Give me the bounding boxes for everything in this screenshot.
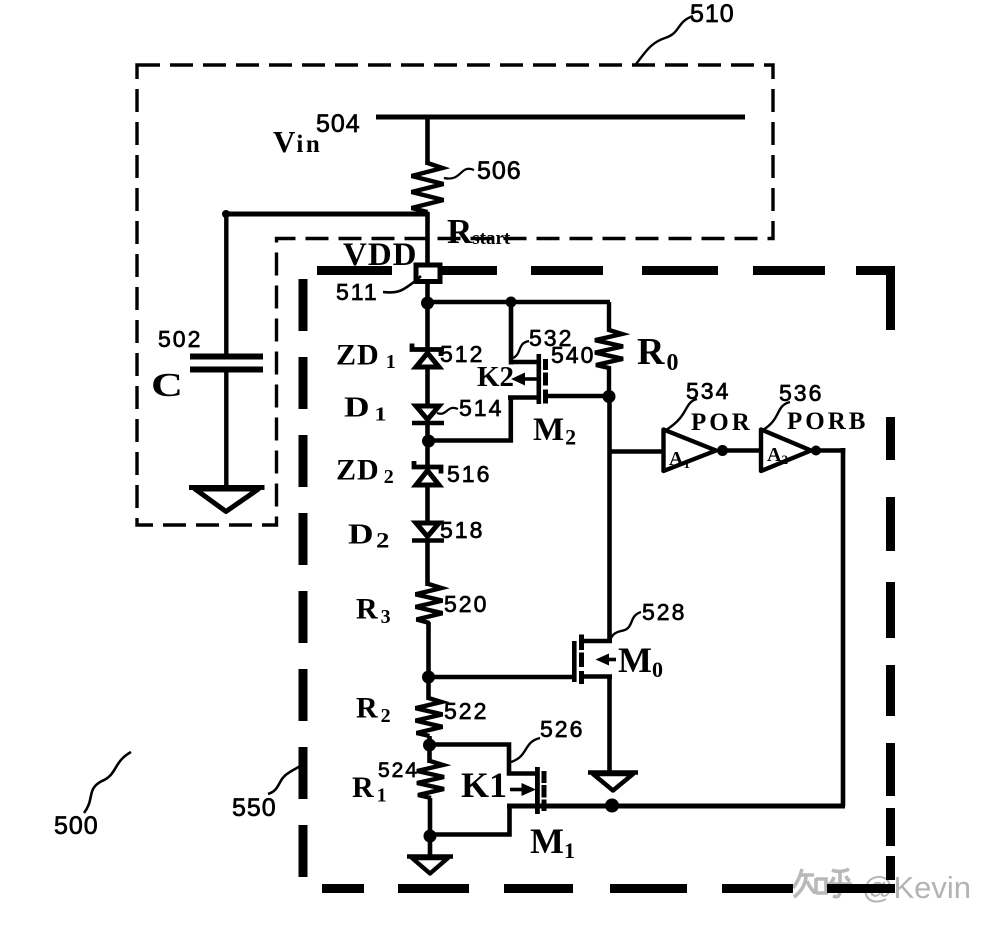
M2 drain lead bbox=[546, 394, 606, 399]
dashed box 510 (startup block, L-shaped) bbox=[137, 65, 773, 525]
svg-text:514: 514 bbox=[459, 395, 503, 421]
cathode bar with bent ends bbox=[412, 344, 442, 357]
leader to box 550 bbox=[268, 764, 303, 794]
ground (M0) bbox=[588, 773, 638, 791]
junction dot R0 bottom / M2 drain bbox=[603, 390, 616, 403]
leader to M1 gate bbox=[511, 738, 540, 762]
svg-text:POR: POR bbox=[691, 409, 753, 436]
dashed box 550 bottom edge bbox=[322, 884, 793, 893]
M2 gate bar bbox=[537, 354, 542, 404]
leader to M0 bbox=[610, 612, 641, 640]
capacitor C bottom plate bbox=[190, 367, 263, 373]
svg-text:524: 524 bbox=[378, 759, 419, 782]
svg-text:K2: K2 bbox=[477, 361, 514, 393]
transistor M2 (K2) 532 bbox=[508, 302, 606, 404]
M0 channel segments bbox=[579, 635, 584, 651]
junction dot R1 bottom bbox=[424, 830, 437, 843]
wire resistor 506 bottom to capacitor branch bbox=[223, 212, 429, 217]
wire R2 to R1 with K1 tap bbox=[427, 736, 432, 763]
wire VDD rail to R0 bbox=[426, 300, 610, 305]
wire VDD pin down to rail bbox=[425, 282, 430, 349]
M1 gate bar bbox=[535, 767, 540, 814]
watermark glyph 乎 bbox=[828, 869, 852, 897]
svg-text:506: 506 bbox=[477, 157, 522, 185]
wire node to M2 gate bbox=[429, 398, 511, 441]
junction dot A2 output bbox=[811, 446, 821, 456]
capacitor C top plate bbox=[190, 354, 263, 360]
leader squiggle 500 bbox=[84, 752, 131, 813]
buffer U536 A2 (PORB) bbox=[761, 430, 811, 472]
wire feedback vertical bbox=[841, 448, 846, 806]
junction dot M2 source tap bbox=[506, 297, 517, 308]
wire D2 to R3 bbox=[425, 541, 430, 586]
watermark glyph 知 bbox=[793, 869, 826, 897]
svg-text:504: 504 bbox=[316, 110, 361, 138]
transistor M0 528 bbox=[572, 635, 616, 685]
zener ZD2 516 bbox=[414, 461, 442, 485]
svg-text:510: 510 bbox=[690, 0, 735, 28]
wire Vin to Rstart bbox=[425, 115, 430, 165]
wire node to M1 gate bbox=[430, 745, 536, 774]
M0 drain lead bbox=[582, 639, 612, 644]
M1 channel segments bbox=[542, 771, 547, 783]
leader to resistor 506 bbox=[444, 169, 474, 179]
wire down to VDD pin bbox=[425, 212, 430, 267]
dashed box 550 right edge bbox=[827, 417, 895, 893]
K2 arrow at gate bbox=[511, 373, 525, 386]
svg-text:VDD: VDD bbox=[343, 237, 418, 273]
node square 511 (VDD pin) bbox=[416, 265, 440, 282]
wire to buffer A1 input bbox=[609, 449, 664, 454]
svg-text:526: 526 bbox=[540, 716, 584, 742]
svg-text:500: 500 bbox=[54, 812, 99, 840]
svg-text:540: 540 bbox=[551, 342, 595, 368]
junction dot on drain rail bbox=[605, 799, 619, 813]
wire A1 out to A2 in bbox=[722, 448, 762, 453]
diode D1 514 bbox=[412, 406, 444, 423]
leader to pin 511 bbox=[383, 276, 421, 292]
svg-text:516: 516 bbox=[447, 461, 491, 487]
junction dot R3/R2 (M0 gate node) bbox=[422, 671, 435, 684]
wire capacitor bottom to ground bbox=[224, 372, 228, 488]
capacitor C 502: top wire bbox=[224, 212, 228, 354]
svg-text:550: 550 bbox=[232, 794, 277, 822]
wire ZD2 to D2 bbox=[425, 484, 430, 524]
resistor R0 540 bbox=[595, 302, 623, 396]
wire R1 bottom node to M1 source bbox=[430, 804, 510, 835]
svg-text:C: C bbox=[151, 366, 183, 404]
svg-text:528: 528 bbox=[642, 599, 686, 625]
M2 source lead bbox=[509, 302, 538, 365]
leader to A2 bbox=[763, 402, 790, 430]
M0 source lead bbox=[582, 674, 612, 679]
junction dot R2/R1 (K1 gate node) bbox=[423, 739, 436, 752]
leader to M2 gate bbox=[513, 341, 529, 358]
zener ZD1 512 bbox=[412, 344, 442, 368]
M2 channel segments bbox=[543, 359, 548, 370]
svg-text:518: 518 bbox=[440, 517, 484, 543]
buffer U534 A1 (POR) bbox=[664, 430, 717, 472]
resistor R3 520 bbox=[416, 584, 443, 623]
dashed box 550 left edge bbox=[299, 279, 308, 877]
svg-text:511: 511 bbox=[336, 279, 379, 305]
wire to M0 gate bbox=[429, 675, 575, 680]
leader to A1 bbox=[666, 399, 697, 430]
diode D2 518 bbox=[412, 523, 444, 541]
ground (R1) bbox=[407, 857, 453, 874]
wire R3 to R2 bbox=[426, 622, 431, 700]
resistor 506 Rstart bbox=[412, 163, 444, 212]
wire ZD1 to D1 bbox=[425, 366, 430, 407]
M2 gate lead bbox=[508, 395, 537, 400]
leader to box 510 bbox=[636, 16, 693, 64]
junction dot node between D1 and ZD2 bbox=[422, 435, 435, 448]
junction dot VDD rail bbox=[421, 297, 434, 310]
leader to D1 bbox=[437, 408, 458, 414]
svg-text:536: 536 bbox=[779, 380, 823, 406]
resistor R2 522 bbox=[416, 698, 443, 736]
resistor R1 524 bbox=[417, 761, 444, 798]
ground (capacitor) bbox=[189, 488, 265, 512]
wire A2 out to feedback corner bbox=[816, 448, 845, 453]
dashed box 550 (IC block, thick dashes) top edge bbox=[317, 266, 895, 330]
K1 arrow at gate bbox=[510, 788, 523, 792]
wire Vin rail 504 bbox=[376, 115, 745, 120]
wire M0 source to ground bbox=[607, 676, 612, 772]
wire D1 to ZD2 with node K2 tap bbox=[425, 424, 430, 465]
M0 body arrow bbox=[596, 654, 610, 666]
svg-text:K1: K1 bbox=[461, 765, 507, 805]
wire R1 to ground bbox=[428, 798, 433, 857]
junction dot A1 output bbox=[717, 445, 728, 456]
svg-text:522: 522 bbox=[444, 698, 488, 724]
transistor M1 (K1) 526 bbox=[510, 767, 547, 814]
svg-text:502: 502 bbox=[158, 326, 202, 352]
junction at capacitor branch bbox=[222, 210, 230, 218]
svg-text:520: 520 bbox=[444, 591, 488, 617]
wire M1 drain rail to feedback bbox=[507, 804, 845, 809]
svg-text:PORB: PORB bbox=[787, 408, 868, 435]
wire output node down to M0 bbox=[607, 397, 612, 641]
anode triangle pointing up bbox=[416, 353, 439, 367]
M0 gate bar bbox=[572, 641, 577, 682]
